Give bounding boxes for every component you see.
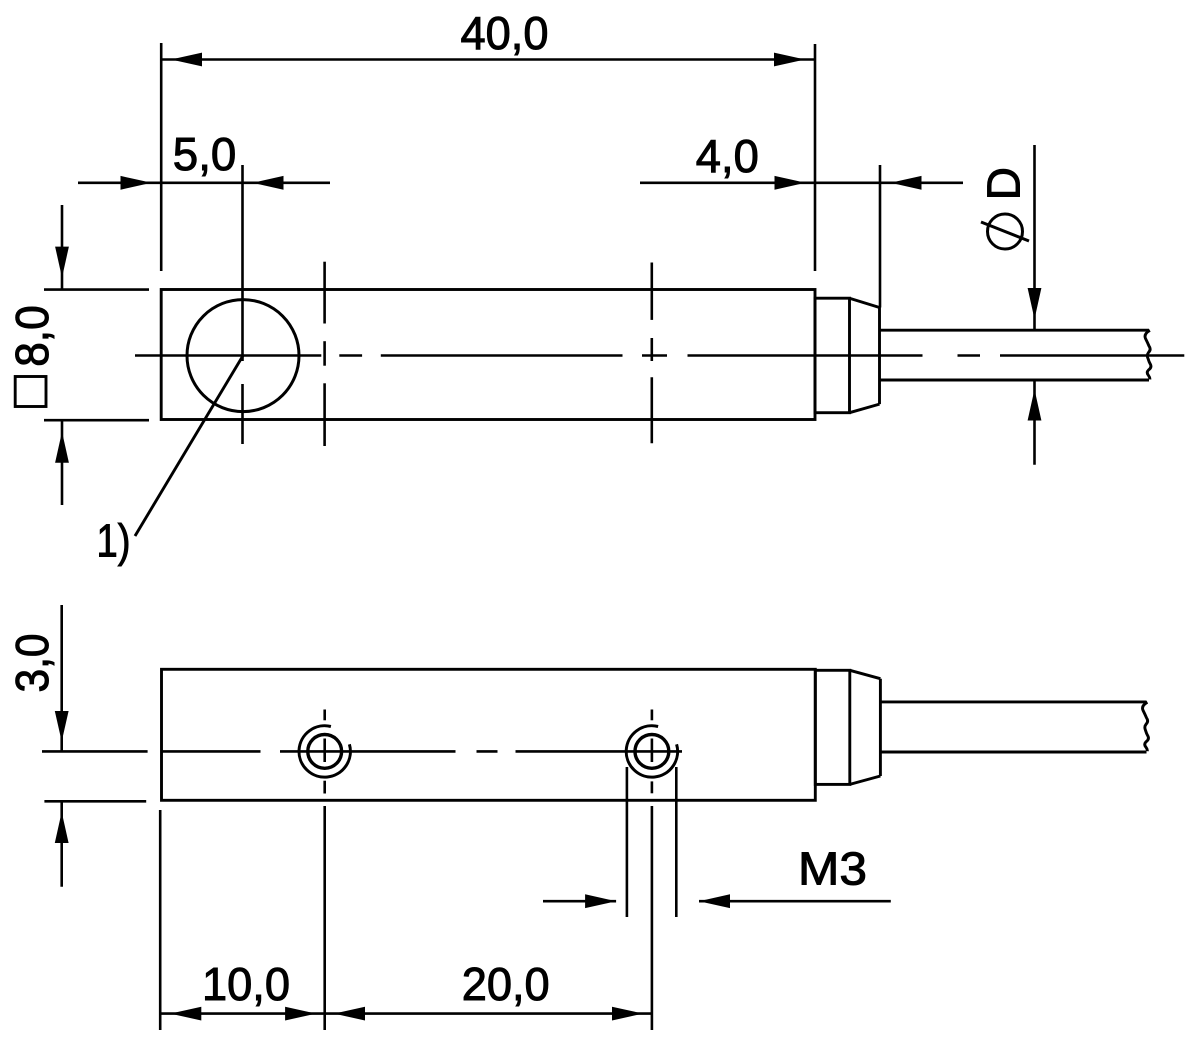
svg-text:M3: M3	[798, 842, 867, 894]
top view hole centerline 1	[323, 262, 326, 446]
top view cable gland	[815, 298, 880, 413]
bottom view body	[162, 669, 816, 800]
dimension 4,0	[640, 130, 963, 308]
dimension diameter D	[978, 145, 1042, 465]
dimension 3,0	[6, 605, 146, 887]
bottom view hole 2 vertical centerline	[651, 710, 654, 1031]
dimension 20,0	[324, 958, 652, 1021]
svg-text:40,0: 40,0	[461, 7, 549, 59]
top view body	[161, 290, 815, 420]
bottom view hole 1 vertical centerline	[323, 710, 326, 1031]
svg-text:5,0: 5,0	[173, 128, 237, 180]
dimension 5,0	[78, 128, 330, 444]
svg-text:4,0: 4,0	[696, 130, 759, 182]
dimension 10,0	[160, 810, 324, 1030]
top view hole centerline 2	[650, 263, 653, 444]
dimension M3	[543, 767, 891, 917]
svg-text:1): 1)	[97, 515, 131, 567]
dimension 40,0	[161, 7, 815, 271]
label 1) with leader	[97, 356, 244, 567]
mounting hole 2	[626, 726, 677, 777]
top view cable	[880, 330, 1151, 380]
bottom view cable gland	[815, 670, 880, 784]
svg-text:D: D	[978, 167, 1030, 200]
svg-text:20,0: 20,0	[462, 958, 550, 1010]
svg-text:10,0: 10,0	[202, 958, 290, 1010]
bottom view hole axis centerline	[42, 750, 682, 753]
top view horizontal centerline	[135, 354, 1184, 357]
svg-text:8,0: 8,0	[6, 305, 58, 367]
top view sensing face circle	[187, 300, 299, 412]
bottom view cable	[880, 702, 1148, 752]
dimension square 8,0	[6, 205, 149, 505]
svg-text:3,0: 3,0	[6, 634, 58, 693]
mounting hole 1	[299, 726, 350, 777]
